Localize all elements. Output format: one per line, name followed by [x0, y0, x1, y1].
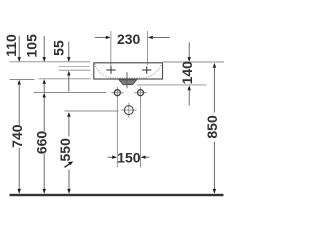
dim 230 left shaft: [95, 36, 107, 38]
dim 740 upper shaft: [18, 84, 20, 125]
dim 150 left shaft: [108, 156, 114, 158]
extension line drain height: [65, 110, 119, 112]
dim 150 extension line left (through mount hole): [116, 87, 118, 168]
dim 550 floor arrowhead: [67, 189, 70, 194]
extension line mid (y66): [58, 65, 89, 67]
dim 105 up arrowhead at line B: [43, 79, 46, 84]
svg-text:230: 230: [117, 31, 141, 47]
svg-text:150: 150: [117, 149, 141, 165]
dim 850 up arrowhead at rim line: [213, 63, 216, 68]
drain pipe circle: [124, 106, 133, 115]
dim 140 down arrowhead at rim line: [188, 57, 191, 62]
dim 740 up arrowhead at line B: [18, 80, 21, 85]
extension line mounting holes: [34, 92, 107, 94]
dim 105 down arrowhead: [43, 57, 46, 62]
washbasin bowl curve: [95, 64, 162, 78]
dim 230 right shaft: [152, 36, 169, 38]
svg-text:110: 110: [3, 34, 19, 57]
drain pipe crosshair horizontal: [121, 109, 136, 111]
mounting hole right crosshair: [134, 92, 147, 94]
svg-text:140: 140: [179, 61, 195, 85]
dim 140 upper stub: [188, 42, 190, 58]
dim 230 right arrowhead: [148, 36, 153, 39]
extension line B lower: [10, 79, 35, 81]
dim 550 lower shaft: [68, 170, 70, 193]
dim 660 floor arrowhead: [43, 189, 46, 194]
dim 110 down arrowhead: [18, 57, 21, 62]
extension line A right (rim top extended right): [163, 61, 224, 63]
dim 660 lower shaft: [43, 154, 45, 193]
dim 150 extension line right (through mount hole): [140, 87, 142, 168]
dim 150 right arrowhead: [141, 156, 146, 159]
dim 230 left arrowhead: [106, 36, 111, 39]
svg-text:105: 105: [24, 34, 40, 58]
dim 850 upper shaft: [213, 67, 215, 113]
dim 105 stub line: [43, 36, 45, 58]
extension line C (tap hole axis): [59, 69, 91, 71]
dim 55 down arrowhead: [67, 57, 70, 62]
dim 55 lower tail: [68, 75, 70, 92]
dim 230 extension line right: [147, 31, 149, 65]
extension line B upper: [39, 78, 92, 80]
svg-text:740: 740: [9, 124, 25, 148]
dim 230 extension line left: [110, 31, 112, 67]
mounting hole left crosshair: [111, 92, 123, 94]
dim 550 diagonal leader arrow: [65, 163, 71, 167]
dim 150 left arrowhead: [112, 156, 117, 159]
dim 140 lower tail: [188, 89, 190, 105]
washbasin outline rectangle: [94, 63, 163, 79]
dim 850 floor arrowhead: [213, 189, 216, 194]
mounting hole right circle: [138, 90, 144, 96]
drain trap hatched: [119, 80, 137, 85]
drain trap centerline: [126, 72, 128, 88]
dim 850 lower shaft: [213, 142, 215, 193]
dim 55 stub line: [68, 42, 70, 59]
extension line A left (rim top extended left): [10, 61, 91, 63]
floor line: [10, 194, 224, 196]
dim 55 up arrowhead at line C: [67, 71, 70, 76]
drain pipe crosshair vertical: [128, 103, 130, 118]
dim 660 upper shaft: [43, 97, 45, 132]
dim 550 up arrowhead at drain line: [67, 112, 70, 117]
dim 740 lower shaft: [18, 148, 20, 193]
svg-text:55: 55: [51, 40, 67, 56]
dim 740 floor arrowhead: [18, 189, 21, 194]
dim 550 upper shaft: [68, 116, 70, 136]
faucet hole cross right: [142, 66, 151, 73]
svg-text:550: 550: [57, 138, 73, 162]
extension line trap bottom to right: [137, 84, 207, 86]
mounting hole left circle: [114, 90, 120, 96]
dim 660 tail between arrows: [43, 83, 45, 92]
dim 150 right shaft: [145, 156, 150, 158]
svg-text:660: 660: [34, 131, 50, 155]
faucet hole cross left: [106, 66, 115, 73]
svg-text:850: 850: [204, 115, 220, 139]
dim 140 up arrowhead at trap line: [188, 85, 191, 90]
dim 110 stub line: [18, 36, 20, 58]
dim 660 up arrowhead at mount line: [43, 93, 46, 98]
